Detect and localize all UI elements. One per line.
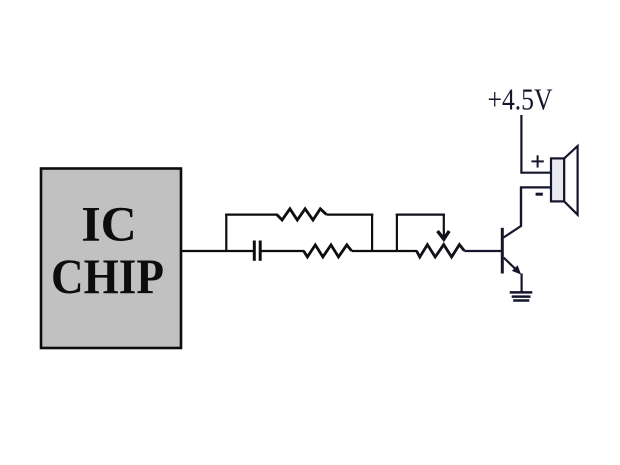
wire: feedback loop top-right segment bbox=[327, 214, 374, 216]
transistor Q1 bbox=[502, 187, 521, 292]
resistor R1 (feedback, top branch) bbox=[277, 209, 327, 220]
wire: feedback loop right vertical bbox=[371, 214, 373, 252]
wire from IC chip to capacitor bbox=[181, 250, 253, 252]
svg-text:CHIP: CHIP bbox=[51, 248, 164, 304]
ground bbox=[510, 292, 533, 300]
speaker LS1 bbox=[551, 146, 578, 215]
transistor Q1 base bar bbox=[501, 228, 504, 274]
wire: feedback loop left vertical bbox=[225, 214, 227, 252]
plus label at speaker bbox=[532, 155, 544, 167]
wire potentiometer to transistor base bbox=[464, 250, 501, 252]
IC chip U1 bbox=[41, 169, 181, 349]
transistor Q1 emitter lead with arrow bbox=[504, 258, 517, 270]
capacitor C1 bbox=[254, 241, 260, 261]
transistor Q1 collector lead bbox=[504, 187, 522, 237]
wire capacitor to resistor R2 bbox=[262, 250, 305, 252]
wire from +4.5V down to speaker plus terminal bbox=[521, 115, 551, 173]
wire: feedback loop top-left segment bbox=[225, 214, 277, 216]
potentiometer VR1: wiper loop left vertical bbox=[396, 214, 398, 252]
svg-text:IC: IC bbox=[81, 196, 137, 252]
resistor R2 (series, bottom branch) bbox=[304, 245, 352, 257]
wire speaker minus terminal to collector bbox=[521, 187, 551, 226]
potentiometer VR1: wiper arrow bbox=[438, 214, 450, 240]
minus label at speaker bbox=[536, 193, 543, 196]
svg-text:+4.5V: +4.5V bbox=[488, 82, 554, 117]
potentiometer VR1: wiper loop top wire bbox=[396, 214, 445, 216]
wire R2 to potentiometer bbox=[352, 250, 418, 252]
potentiometer VR1: resistor track bbox=[417, 245, 465, 257]
